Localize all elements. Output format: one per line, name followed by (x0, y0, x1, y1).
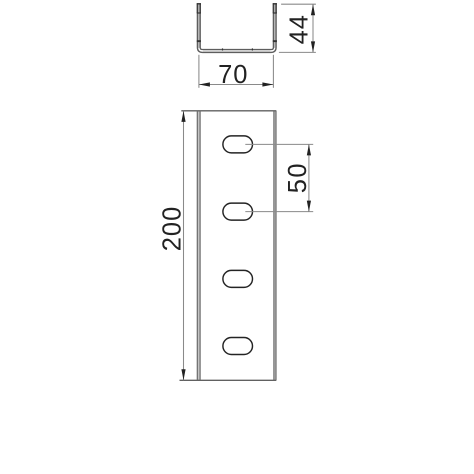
dimension 44: bottom extension line (279, 51, 316, 53)
dimension 44: dimension line (312, 4, 314, 52)
dimension 44: bottom arrowhead (311, 41, 315, 52)
dimension 200: top arrowhead (181, 111, 185, 122)
dimension 70: right arrowhead (262, 82, 273, 86)
left wall tick lower (197, 40, 201, 42)
dimension 50: lower extension line (245, 211, 313, 213)
bottom weld tick left (222, 48, 223, 50)
left wall tick upper (197, 12, 201, 13)
svg-text:200: 200 (159, 206, 187, 252)
dimension 44: top extension line (281, 3, 316, 5)
plate top edge (front view) (181, 110, 276, 112)
right wall tick upper (273, 12, 277, 13)
plate left edge double line (196, 111, 198, 381)
right wall top cap (273, 3, 277, 4)
dimension 44: top arrowhead (311, 4, 315, 15)
plate bottom edge (180, 379, 277, 381)
dimension 70: left arrowhead (199, 82, 210, 86)
slot 2 (223, 203, 253, 220)
U-channel outer profile (top view) (197, 3, 276, 52)
plate left edge infill (197, 111, 200, 381)
left wall dark top segment (197, 3, 200, 13)
plate right edge infill (274, 111, 276, 381)
plate right edge double line (273, 111, 275, 381)
right wall dark top segment (273, 3, 276, 13)
dimension 200: bottom arrowhead (181, 369, 185, 380)
slot 1 (223, 136, 253, 153)
dimension 50: upper extension line (245, 143, 313, 145)
dimension 70: dimension line (199, 84, 273, 86)
left wall top cap (197, 3, 201, 4)
slot 4 (223, 338, 253, 355)
dimension 200: dimension line (183, 111, 185, 380)
dimension 70: right extension line (272, 55, 274, 88)
bottom infill (203, 49, 271, 52)
svg-text:70: 70 (218, 61, 248, 89)
bottom weld tick right (252, 48, 253, 50)
dimension 70: left extension line (198, 55, 200, 88)
dimension 50: dimension line (308, 144, 310, 211)
svg-text:50: 50 (284, 162, 312, 193)
right wall tick lower (273, 40, 277, 42)
dimension 50: top arrowhead (307, 144, 311, 155)
svg-text:44: 44 (286, 14, 314, 44)
slot 3 (223, 270, 253, 287)
left wall infill (197, 3, 200, 48)
U-channel inner profile (200, 3, 273, 49)
dimension 50: bottom arrowhead (307, 201, 311, 212)
right wall infill (273, 3, 276, 48)
